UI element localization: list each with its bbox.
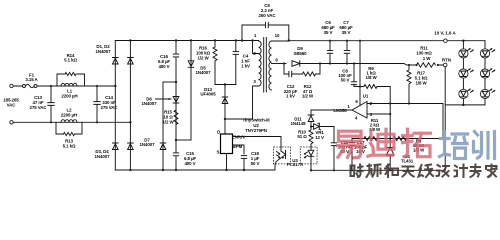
capacitor C7 (344, 40, 350, 65)
label R16 100 k 1/2 W (196, 46, 211, 61)
svg-text:10: 10 (275, 33, 280, 38)
pin 2 tap wire (251, 39, 258, 53)
label D13 UF4005 (200, 87, 216, 97)
svg-text:35 V: 35 V (324, 30, 333, 35)
label D3, D4 1N4007 (95, 149, 111, 159)
svg-text:TNY279PN: TNY279PN (245, 128, 267, 133)
svg-text:5.1 kΩ: 5.1 kΩ (64, 58, 77, 63)
node leg B to B+ (129, 39, 131, 41)
char ji (455, 165, 468, 178)
char zhuan (471, 165, 481, 178)
label VR1 12 V (315, 130, 324, 140)
svg-text:TinySwitch-III: TinySwitch-III (242, 118, 269, 123)
label C17 100 uF 16 V (354, 140, 368, 154)
node AC top to leg A (114, 85, 116, 87)
svg-text:1N4007: 1N4007 (140, 142, 156, 147)
node D7 leg to return (162, 169, 164, 171)
label R10 51 ohm (297, 130, 307, 140)
node valley mid (175, 139, 177, 141)
char jia (486, 165, 497, 178)
resistor R11 sense (horizontal) (415, 63, 439, 67)
svg-text:D: D (217, 129, 220, 134)
wire source to return (225, 154, 227, 172)
wire AC bottom rail (13, 121, 130, 123)
node TL431 top (389, 137, 391, 139)
label D6 1N4007 with leader (142, 97, 172, 107)
svg-text:TL431: TL431 (401, 159, 414, 164)
svg-text:250 VAC: 250 VAC (259, 13, 277, 18)
node snubber right (319, 62, 321, 64)
wire clamp R16 leg (214, 41, 216, 85)
wire secondary ground rail (311, 164, 445, 170)
wire LED column 2 (484, 41, 486, 105)
resistor R16 (vertical) (213, 47, 217, 61)
inductor L2 (on bottom rail) (61, 120, 77, 123)
svg-text:1/8 W: 1/8 W (365, 75, 377, 80)
svg-text:RTN: RTN (442, 57, 451, 62)
diode D3 (113, 143, 119, 150)
resistor R12 (303, 72, 316, 76)
capacitor C13 (48, 85, 54, 124)
wire bridge leg B (129, 41, 131, 171)
svg-text:1N4007: 1N4007 (96, 49, 112, 54)
capacitor C16 (173, 54, 179, 58)
wire bridge leg A (114, 41, 116, 171)
svg-text:10 V, 1.6 A: 10 V, 1.6 A (434, 31, 456, 36)
wire V+ rail secondary (289, 40, 485, 42)
wire clamp C4 leg (235, 41, 237, 85)
wire LED column 1 (462, 41, 464, 105)
svg-text:2200 µH: 2200 µH (61, 94, 77, 99)
op U3 optocoupler transistor side (dashed box) (274, 147, 291, 164)
node snubber left (283, 62, 285, 64)
label R17 5.1 k 1/8 W (415, 71, 428, 86)
diode D2 (128, 58, 134, 65)
resistor R11b 2 k (horizontal) (364, 137, 377, 141)
label L1 2200 uH (61, 89, 77, 99)
char she2 (437, 165, 450, 177)
diode D7 (160, 143, 166, 150)
svg-text:100 mΩ: 100 mΩ (416, 51, 432, 56)
svg-text:SB560: SB560 (293, 51, 307, 56)
capacitor C14 (94, 85, 100, 124)
capacitor C12 (288, 71, 292, 77)
diode D4 (128, 143, 134, 150)
svg-text:PC817A: PC817A (287, 162, 304, 167)
svg-text:1N4007: 1N4007 (95, 154, 111, 159)
char tian (403, 167, 414, 177)
wire D7 leg (162, 82, 164, 170)
fuse F1 (23, 84, 38, 87)
label R13 5.1 k (63, 139, 76, 149)
svg-text:1 W: 1 W (423, 56, 432, 61)
label R6 1 k 1/8 W (365, 66, 377, 80)
capacitor C8 (351, 62, 357, 86)
wire link node140 (176, 139, 191, 141)
svg-text:3.15 A: 3.15 A (25, 77, 38, 82)
zener VR1 (horizontal) (311, 123, 334, 130)
label U4 TL431 (401, 154, 414, 164)
wire divider row (352, 138, 443, 140)
wire EN/UV to opto (233, 137, 282, 148)
op U3 optocoupler LED side (dashed box) (300, 147, 317, 164)
node leg B to return (129, 169, 131, 171)
label L2 2200 uH (61, 108, 77, 118)
capacitor C6 (327, 40, 333, 65)
diode D11 (308, 115, 314, 127)
svg-text:2200 µH: 2200 µH (61, 113, 77, 118)
LED 6 (480, 89, 495, 99)
diode D13 (222, 97, 228, 104)
diode D9 output rectifier (292, 61, 300, 67)
input terminal L (10, 84, 13, 87)
svg-text:1 kV: 1 kV (286, 94, 295, 99)
svg-text:1N4148: 1N4148 (291, 121, 307, 126)
node C4 top (235, 39, 237, 41)
node AC bottom to leg B (129, 121, 131, 123)
char she (351, 165, 363, 178)
label U3 PC817A (287, 158, 304, 167)
label C16 6.8 uF 400 V (158, 54, 170, 69)
label C8 100 nF 50 V (338, 69, 352, 83)
svg-text:275 VAC: 275 VAC (30, 105, 48, 110)
wire BPM to C18 (233, 145, 245, 154)
label R14 5.1 k (64, 53, 77, 63)
wire clamp bottom link (215, 84, 236, 86)
label R11 100 mohm 1 W (416, 46, 432, 62)
label D11 1N4148 (291, 117, 307, 127)
diode D1 (113, 58, 119, 65)
LED 2 (459, 68, 474, 78)
resistor R10 (vertical) (309, 127, 313, 148)
resistor R14 (parallel branch) (57, 72, 85, 86)
transformer core (264, 38, 267, 93)
wire AC top rail (13, 85, 116, 87)
wire opamp supply leg (359, 40, 361, 106)
LED 3 (459, 89, 474, 99)
wire RTN to LED return (445, 67, 485, 171)
svg-text:1 kV: 1 kV (241, 64, 250, 69)
diode D5 (points down) (188, 61, 194, 68)
pin 10 wire (272, 40, 289, 42)
node clamp mid (224, 83, 226, 85)
label C14 330 nF 275 VAC (101, 95, 119, 110)
svg-text:400 V: 400 V (158, 64, 169, 69)
node LED return left col (462, 104, 464, 106)
label C6 680 uF 35 V (321, 20, 335, 35)
wire valley-fill main leg (175, 41, 177, 171)
wire opamp input pin3 (367, 113, 390, 115)
node valley-main to return (175, 169, 177, 171)
pin 3 wire to drain (253, 86, 259, 119)
label C7 680 uF 35 V (339, 20, 353, 35)
node LED col1 top (462, 40, 464, 42)
watermark big char 5 (blue) (474, 132, 495, 159)
wire opamp input pin2 (367, 104, 443, 139)
char pin (367, 165, 381, 178)
svg-text:S: S (217, 150, 220, 155)
svg-text:VAC: VAC (7, 103, 17, 108)
wire opamp output to D11 (311, 110, 352, 115)
svg-text:35 V: 35 V (342, 30, 351, 35)
svg-text:1N4007: 1N4007 (142, 101, 158, 106)
label C9 2.2 nF 250 VAC (259, 3, 277, 18)
resistor R9 (horizontal) (394, 137, 407, 141)
label C18 1 uF 50 V (251, 151, 260, 166)
svg-text:400 V: 400 V (184, 161, 195, 166)
label C15 6.8 uF 400 V (184, 151, 196, 166)
resistor R6 feedback (354, 85, 390, 89)
node R16 top (214, 39, 216, 41)
node drain junction (224, 118, 226, 120)
label C13 47 nF 275 VAC (30, 95, 48, 110)
pin 6 stub (272, 63, 287, 65)
capacitor C9 (Y-cap loop over transformer) (241, 22, 290, 42)
wire DC return rail (primary) (115, 164, 275, 170)
wire clamp to drain node (225, 85, 253, 135)
svg-text:50 V: 50 V (341, 78, 350, 83)
LED 4 (480, 48, 495, 58)
label D9 SB560 (293, 46, 307, 56)
label 185-265 VAC (3, 98, 19, 108)
svg-text:12 V: 12 V (315, 135, 324, 140)
char he (385, 165, 398, 178)
watermark big char 4 (blue) (440, 132, 468, 159)
op-amp U1 LM358 (points left) (352, 102, 367, 119)
label C10 100 nF 50 V (338, 140, 352, 154)
svg-text:1/2 W: 1/2 W (197, 56, 209, 61)
wire link node82 (163, 81, 176, 83)
label R15 10 ohm 1/2 W (162, 110, 174, 125)
label R9 48 k 1/8 W (413, 139, 425, 153)
node valley top C16 (175, 39, 177, 41)
capacitor C15 (173, 152, 179, 156)
label C4 1 nF 1 kV (241, 54, 250, 69)
capacitor C18 (bypass) (241, 155, 247, 171)
label D7 1N4007 (140, 138, 156, 148)
resistor R13 (parallel branch) (56, 122, 82, 135)
watermark big char 1 (red) (338, 131, 363, 158)
label C12 220 pF 1 kV (284, 84, 298, 99)
label TinySwitch-III U2 TNY279PN (242, 118, 269, 134)
output terminal RTN (443, 63, 447, 67)
label R12 47 ohm 1/2 W (302, 84, 314, 99)
label F1 3.15 A (25, 72, 38, 82)
svg-text:51 Ω: 51 Ω (297, 134, 307, 139)
transformer T1 primary winding (259, 41, 262, 87)
inductor L1 (on top rail) (61, 83, 77, 86)
label R11 2 k 1/8 W (369, 118, 381, 132)
svg-text:1/8 W: 1/8 W (415, 81, 427, 86)
node link82-main (175, 81, 177, 83)
svg-text:U1: U1 (363, 94, 369, 99)
input terminal N (10, 121, 13, 124)
wire feedback leg (389, 87, 391, 139)
node opto led gnd (310, 169, 312, 171)
svg-text:50 V: 50 V (251, 161, 260, 166)
char xian (419, 165, 434, 178)
label D1, D2 1N4007 (96, 44, 112, 54)
transformer T1 secondary winding (269, 41, 272, 90)
snubber loop wires (284, 64, 320, 75)
watermark big char 3 (red) (403, 129, 431, 157)
svg-text:5.1 kΩ: 5.1 kΩ (63, 144, 76, 149)
wire output rectified rail (300, 64, 444, 66)
op U2 TinySwitch-III box (221, 134, 233, 154)
node valley top D5 (190, 39, 192, 41)
svg-text:1N4007: 1N4007 (196, 70, 212, 75)
LED 5 (480, 68, 495, 78)
watermark small text row (dark) (351, 165, 497, 178)
output terminal V+ (444, 39, 448, 43)
shunt reg U4 TL431 (386, 139, 394, 172)
LED 1 (459, 48, 474, 58)
capacitor C4 (233, 51, 239, 55)
resistor R15 (vertical) (174, 104, 178, 140)
label D5 1N4007 (196, 65, 212, 75)
wire B+ rail (115, 40, 258, 42)
svg-text:UF4005: UF4005 (200, 92, 216, 97)
diode D6 (points down) (173, 97, 179, 104)
node D11 VR1 R10 (310, 125, 312, 127)
wire D5 leg (190, 41, 192, 141)
capacitor C17 (349, 139, 355, 172)
svg-text:1/2 W: 1/2 W (162, 120, 174, 125)
resistor R17 sense divider (407, 64, 411, 105)
svg-text:1/2 W: 1/2 W (302, 94, 314, 99)
capacitor C10 (331, 127, 337, 172)
watermark big char 2 (red) (368, 129, 394, 156)
